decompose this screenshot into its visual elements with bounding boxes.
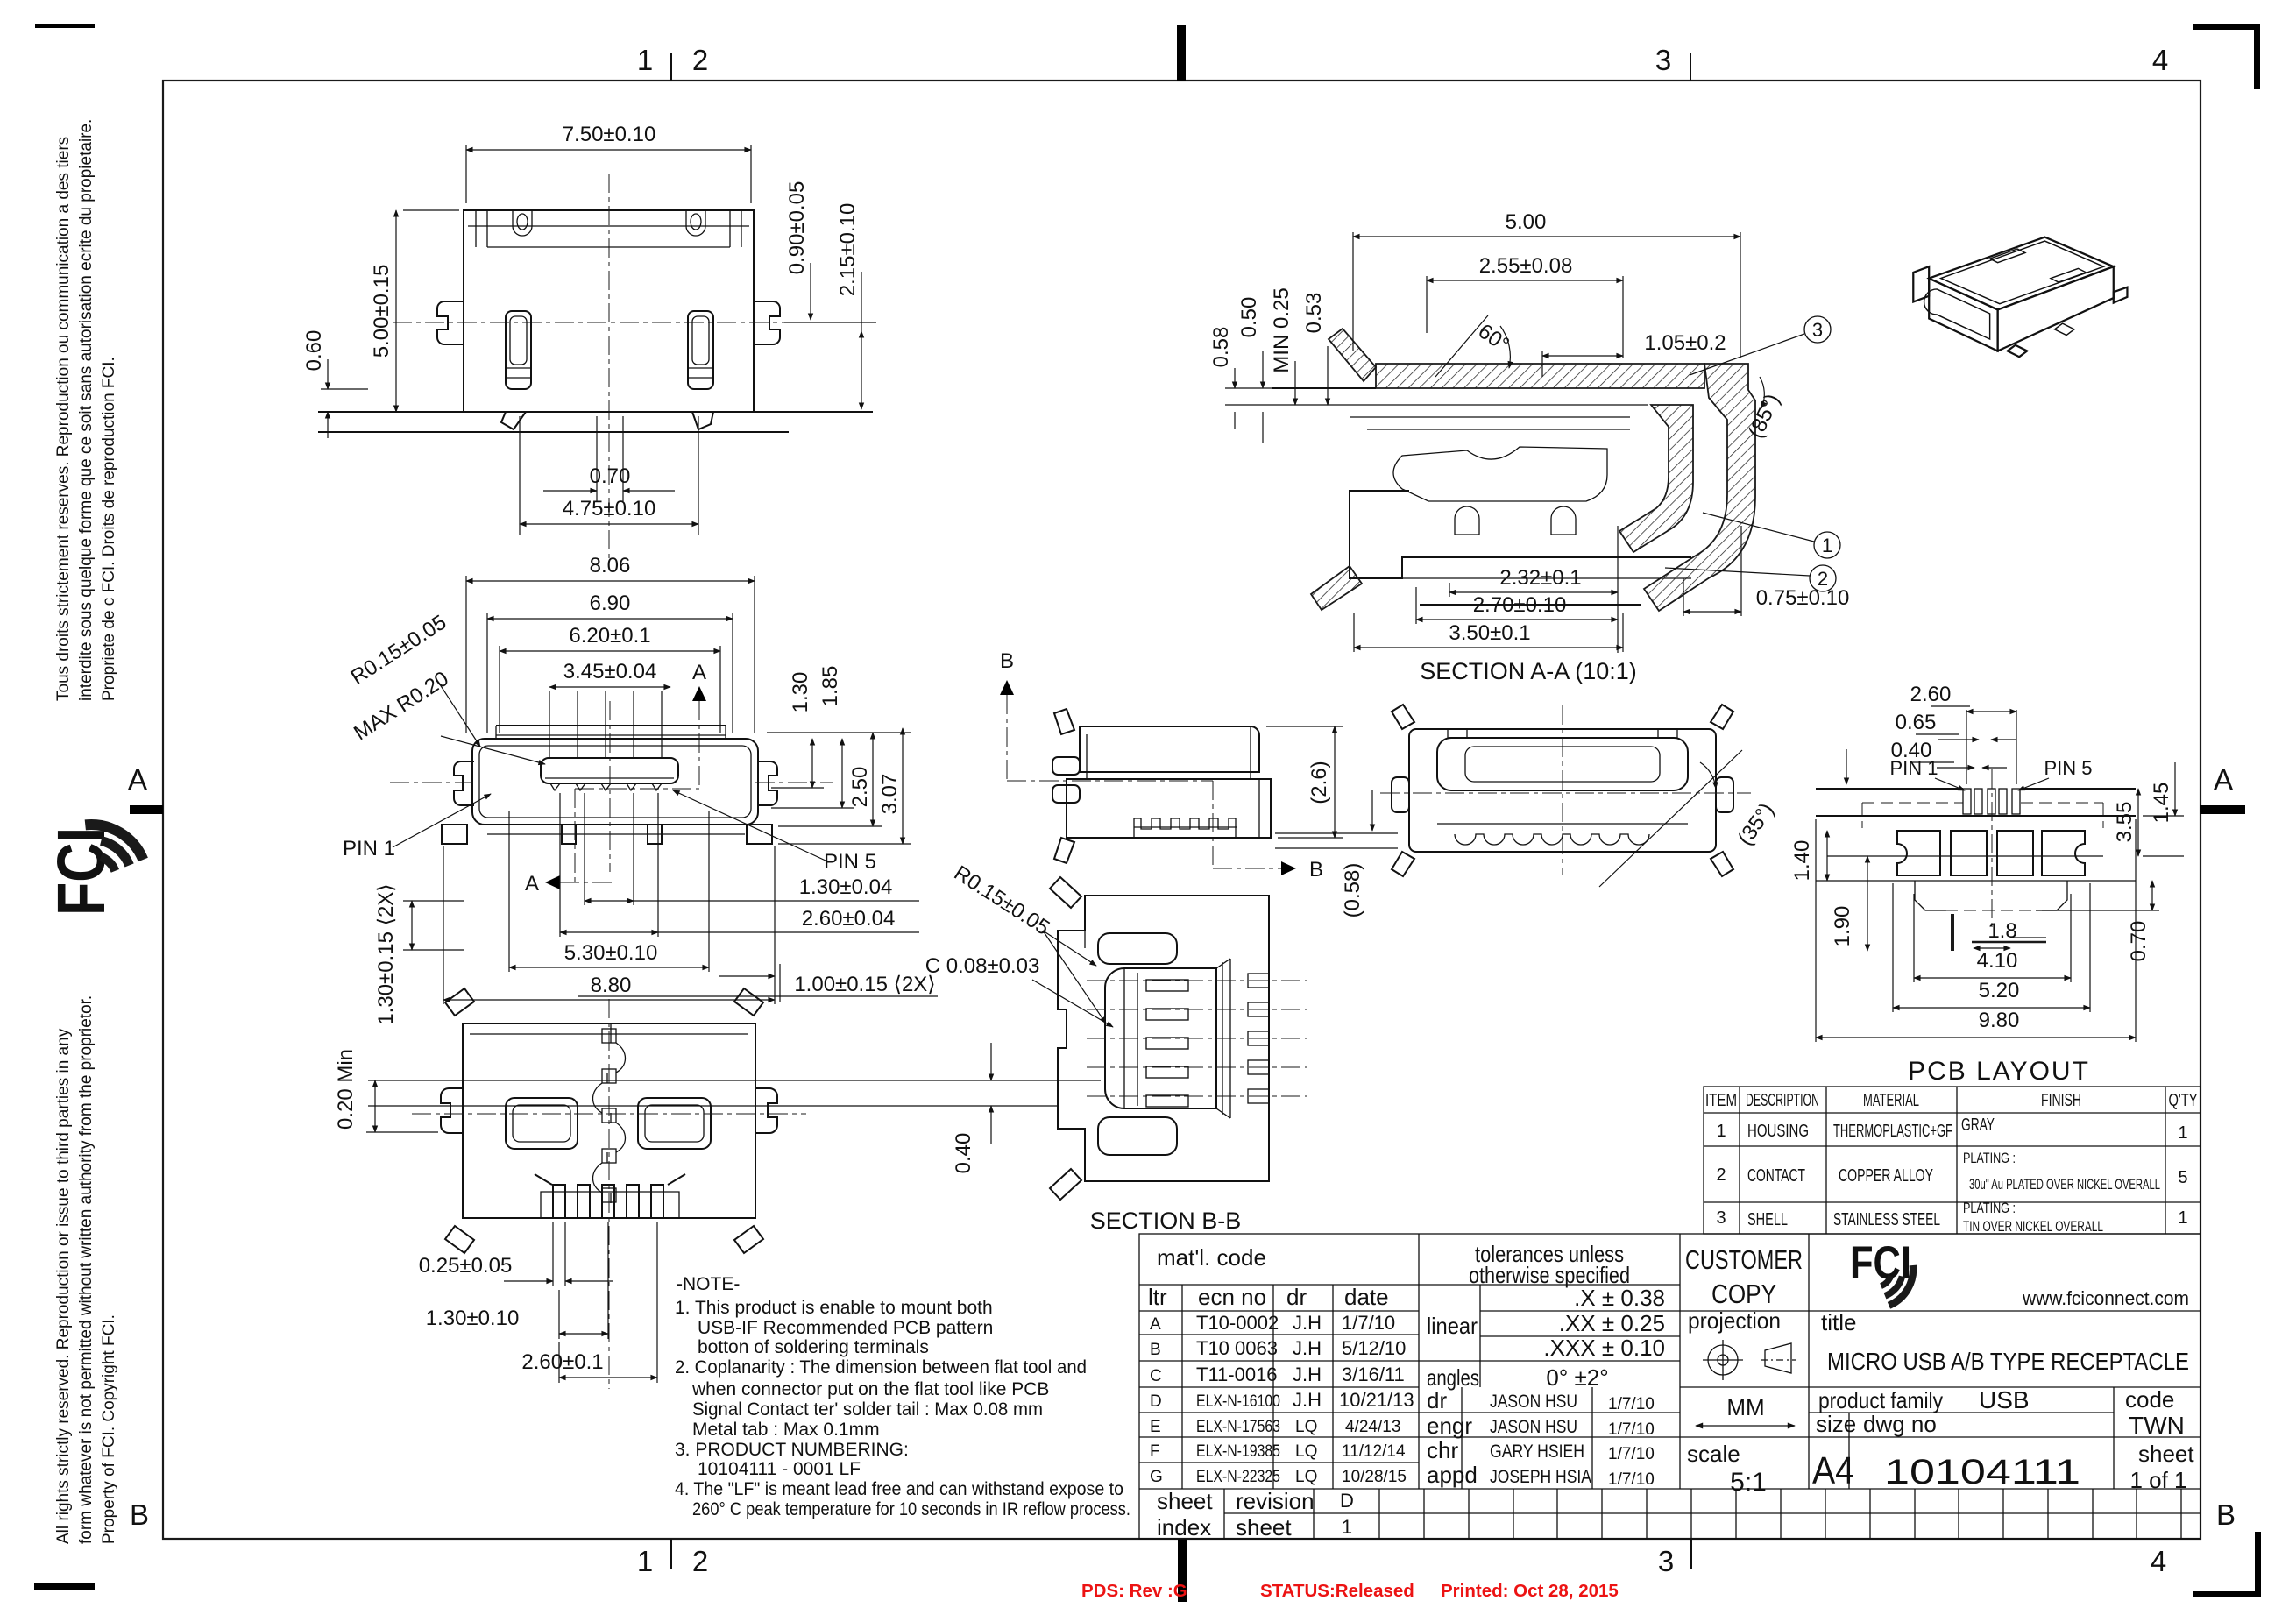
svg-text:3.55: 3.55 (2113, 802, 2137, 843)
svg-text:date: date (1344, 1284, 1389, 1310)
svg-text:sheet: sheet (1236, 1514, 1292, 1541)
svg-text:MM: MM (1726, 1394, 1764, 1420)
contact slot left (506, 311, 531, 389)
top latch slots (513, 210, 532, 236)
left ear (454, 761, 474, 805)
front face (1929, 279, 1997, 351)
svg-text:C 0.08±0.03: C 0.08±0.03 (925, 954, 1040, 978)
svg-text:Signal Contact ter' solder tai: Signal Contact ter' solder tail : Max 0.… (692, 1399, 1043, 1420)
registration mark bottom-left (34, 1583, 95, 1590)
svg-text:8.80: 8.80 (591, 974, 632, 997)
lower housing body (1350, 491, 1691, 578)
svg-text:5.00: 5.00 (1506, 210, 1547, 234)
mat'l code bottom (1139, 1284, 1680, 1286)
svg-text:projection: projection (1688, 1307, 1781, 1334)
svg-text:6.90: 6.90 (590, 591, 631, 615)
svg-text:Propriete de c FCI. Droits de: Propriete de c FCI. Droits de reproducti… (100, 357, 118, 701)
svg-text:4.10: 4.10 (1977, 949, 2018, 973)
svg-text:mat'l. code: mat'l. code (1157, 1244, 1266, 1271)
right face (1998, 266, 2114, 351)
svg-text:THERMOPLASTIC+GF: THERMOPLASTIC+GF (1833, 1122, 1952, 1141)
svg-text:1/7/10: 1/7/10 (1608, 1420, 1655, 1439)
svg-text:(2.6): (2.6) (1307, 761, 1331, 804)
35 deg line (1599, 750, 1742, 887)
5 signal pads (1963, 789, 1971, 814)
dim 0.75 (1683, 578, 1684, 616)
dim 1.05 (1541, 351, 1543, 377)
left lower tab (1311, 566, 1362, 610)
svg-text:5.00±0.15: 5.00±0.15 (370, 265, 393, 358)
svg-text:A: A (128, 763, 147, 796)
tongue / contact lines (1350, 416, 1630, 418)
svg-text:A: A (1150, 1315, 1161, 1334)
top face (1929, 237, 2114, 310)
bottom slot (1098, 1117, 1177, 1155)
svg-text:1/7/10: 1/7/10 (1608, 1395, 1655, 1413)
svg-text:GARY HSIEH: GARY HSIEH (1490, 1441, 1584, 1462)
svg-text:1/7/10: 1/7/10 (1608, 1470, 1655, 1489)
svg-text:TWN: TWN (2129, 1412, 2185, 1439)
svg-text:0.60: 0.60 (302, 330, 326, 372)
svg-text:B: B (1000, 649, 1014, 673)
corner feet (445, 988, 474, 1016)
svg-text:JOSEPH HSIA: JOSEPH HSIA (1490, 1467, 1591, 1487)
svg-text:0.40: 0.40 (952, 1133, 975, 1174)
svg-text:1/7/10: 1/7/10 (1608, 1445, 1655, 1463)
svg-text:3: 3 (1812, 319, 1823, 341)
bottom contact comb (1134, 818, 1236, 838)
centerlines (608, 999, 610, 1389)
top plan view (302, 123, 876, 568)
svg-text:0.50: 0.50 (1237, 297, 1261, 338)
svg-text:1: 1 (2178, 1208, 2187, 1228)
svg-text:2.60±0.04: 2.60±0.04 (802, 907, 896, 931)
registration mark left-center (130, 805, 163, 814)
tolerance rows (1480, 1310, 1680, 1312)
extension lines above (549, 691, 550, 758)
dim 5.00 (403, 209, 459, 211)
dim 2.55 (1426, 276, 1428, 333)
right ear (757, 761, 777, 805)
svg-text:2: 2 (692, 1545, 708, 1577)
dim 5.30 (508, 811, 510, 972)
svg-text:chr: chr (1427, 1437, 1458, 1463)
left ear (441, 1088, 463, 1133)
housing body (1067, 779, 1271, 838)
svg-text:.XX ± 0.25: .XX ± 0.25 (1559, 1310, 1665, 1336)
svg-text:10/28/15: 10/28/15 (1342, 1468, 1407, 1486)
4 big pads (1897, 831, 1940, 875)
svg-text:1.30: 1.30 (789, 672, 812, 713)
bottom foot line (1420, 604, 1641, 606)
plan view near section B (top view with 35deg) (1380, 705, 1779, 887)
svg-text:(0.58): (0.58) (1341, 863, 1364, 918)
dim arrow into top (1846, 749, 1847, 784)
svg-text:1.30±0.10: 1.30±0.10 (426, 1307, 520, 1330)
registration mark right-center (2200, 805, 2245, 814)
board edge lines (1816, 788, 1963, 790)
svg-text:www.fciconnect.com: www.fciconnect.com (2022, 1287, 2189, 1309)
svg-text:B: B (1309, 858, 1323, 882)
dr/engr/chr/appd (1419, 1412, 1680, 1413)
svg-text:0.70: 0.70 (2127, 921, 2151, 962)
svg-text:0.90±0.05: 0.90±0.05 (785, 181, 809, 275)
svg-text:SHELL: SHELL (1747, 1210, 1788, 1229)
svg-text:0.25±0.05: 0.25±0.05 (419, 1254, 513, 1278)
svg-text:5.30±0.10: 5.30±0.10 (564, 941, 658, 965)
svg-text:USB-IF Recommended PCB pattern: USB-IF Recommended PCB pattern (698, 1318, 993, 1338)
front view (343, 554, 938, 1025)
svg-text:10/21/13: 10/21/13 (1339, 1389, 1414, 1411)
contact block (1105, 968, 1216, 1108)
svg-text:FINISH: FINISH (2041, 1091, 2081, 1110)
title block (1139, 1234, 2200, 1541)
svg-text:form whatever is not permitted: form whatever is not permitted without w… (77, 995, 96, 1544)
svg-text:10104111: 10104111 (1884, 1453, 2080, 1491)
right pins (1248, 974, 1269, 1103)
svg-text:B: B (130, 1498, 149, 1531)
balloon 2 (1810, 565, 1836, 591)
dim 1.30 / 1.85 right (771, 787, 824, 789)
svg-text:5.20: 5.20 (1979, 979, 2020, 1002)
svg-text:dr: dr (1427, 1387, 1447, 1413)
svg-text:A: A (692, 661, 706, 684)
svg-text:index: index (1157, 1514, 1211, 1541)
dim 2.15 (861, 331, 862, 409)
MM arrow (1696, 1425, 1795, 1427)
svg-text:J.H: J.H (1293, 1363, 1322, 1385)
svg-text:title: title (1821, 1309, 1856, 1335)
projection symbols (1703, 1340, 1796, 1380)
svg-text:dwg no: dwg no (1863, 1411, 1937, 1437)
balloon 3 (1804, 316, 1831, 343)
dim 7.50 (465, 145, 467, 203)
balloon 1 (1814, 532, 1840, 558)
body outline (463, 1023, 755, 1218)
body outline (464, 210, 754, 412)
connector dashed outline (1862, 802, 1963, 804)
svg-text:4. The "LF" is meant lead free: 4. The "LF" is meant lead free and can w… (675, 1479, 1123, 1499)
svg-text:MIN 0.25: MIN 0.25 (1270, 287, 1293, 372)
svg-text:1.30±0.04: 1.30±0.04 (799, 875, 893, 899)
dim 1.30 +-0.10 (558, 1290, 560, 1339)
right wall (1222, 962, 1223, 1115)
FCI logo left margin (rotated) (44, 825, 143, 916)
lower flange (487, 833, 745, 835)
shell outline (472, 739, 758, 825)
thick mark (1951, 914, 1954, 951)
svg-text:260° C peak temperature for 10: 260° C peak temperature for 10 seconds i… (692, 1499, 1130, 1519)
svg-text:3.50±0.1: 3.50±0.1 (1449, 621, 1530, 645)
svg-text:Tous droits strictement reserv: Tous droits strictement reserves. Reprod… (54, 137, 73, 701)
revision table (1139, 1310, 1419, 1312)
svg-text:5/12/10: 5/12/10 (1342, 1337, 1406, 1359)
bottom strip (1139, 1488, 2200, 1490)
svg-text:1 of 1: 1 of 1 (2129, 1467, 2186, 1493)
feet (2114, 287, 2128, 303)
dim 4.75 (519, 416, 521, 535)
svg-text:2.60: 2.60 (1910, 683, 1952, 706)
svg-text:CONTACT: CONTACT (1747, 1166, 1805, 1186)
svg-text:engr: engr (1427, 1413, 1472, 1439)
svg-text:3.07: 3.07 (878, 774, 902, 815)
svg-text:dr: dr (1286, 1284, 1307, 1310)
tongue contacts bumps (550, 783, 662, 790)
svg-text:PLATING :: PLATING : (1963, 1150, 2016, 1166)
left bent tab (1329, 329, 1376, 381)
dim 8.80 (443, 846, 444, 1004)
svg-text:ecn no: ecn no (1198, 1284, 1266, 1310)
svg-text:4/24/13: 4/24/13 (1345, 1418, 1400, 1436)
svg-text:STAINLESS STEEL: STAINLESS STEEL (1833, 1210, 1940, 1229)
0.40 ext lines to section B-B (368, 1080, 1101, 1081)
svg-text:ELX-N-22325: ELX-N-22325 (1196, 1468, 1280, 1486)
left sidebar legal text (english, bottom) (54, 995, 118, 1544)
svg-text:2.50: 2.50 (848, 767, 872, 808)
svg-text:LQ: LQ (1295, 1442, 1317, 1461)
svg-text:PIN 1: PIN 1 (343, 837, 395, 861)
svg-text:J.H: J.H (1293, 1312, 1322, 1334)
svg-text:.XXX ± 0.10: .XXX ± 0.10 (1543, 1335, 1665, 1361)
svg-text:2: 2 (692, 44, 708, 76)
svg-text:Metal tab : Max 0.1mm: Metal tab : Max 0.1mm (692, 1420, 880, 1440)
svg-text:3: 3 (1658, 1545, 1674, 1577)
registration mark bottom-right L (2193, 1532, 2261, 1597)
registration mark top-center (1177, 25, 1186, 81)
svg-text:LQ: LQ (1295, 1468, 1317, 1486)
svg-text:interdite sous quelque forme q: interdite sous quelque forme que ce soit… (77, 119, 96, 701)
svg-text:T10-0002: T10-0002 (1196, 1312, 1279, 1334)
bottom solder tails (535, 1174, 552, 1185)
svg-text:revision: revision (1236, 1488, 1315, 1514)
center gasket squares (602, 1029, 616, 1043)
svg-text:SECTION A-A (10:1): SECTION A-A (10:1) (1420, 658, 1637, 684)
svg-text:3.45±0.04: 3.45±0.04 (563, 660, 657, 684)
svg-text:9.80: 9.80 (1979, 1009, 2020, 1032)
right area (1680, 1310, 2200, 1312)
svg-text:HOUSING: HOUSING (1747, 1122, 1809, 1141)
red footer (1081, 1581, 1619, 1601)
left mounting ear (437, 301, 464, 344)
dim 2.50 / 3.07 right (872, 733, 874, 826)
section B-B (925, 861, 1307, 1234)
dim 6.20 (499, 646, 500, 733)
meander trace (593, 1043, 626, 1193)
top shell plate (hatched) (1376, 364, 1704, 388)
svg-text:2.60±0.1: 2.60±0.1 (521, 1350, 603, 1374)
registration mark bottom-center (1178, 1539, 1187, 1602)
svg-text:1.05±0.2: 1.05±0.2 (1644, 331, 1726, 355)
svg-text:PCB LAYOUT: PCB LAYOUT (1908, 1057, 2090, 1086)
pcb line (1272, 387, 1376, 389)
svg-text:Printed: Oct 28, 2015: Printed: Oct 28, 2015 (1441, 1581, 1619, 1601)
svg-text:1: 1 (1716, 1122, 1726, 1141)
dim 6.90 (486, 613, 488, 733)
svg-text:STATUS:Released: STATUS:Released (1260, 1581, 1414, 1601)
svg-text:1: 1 (1342, 1516, 1352, 1538)
svg-text:2.15±0.10: 2.15±0.10 (836, 203, 860, 297)
svg-text:0° ±2°: 0° ±2° (1546, 1364, 1608, 1391)
svg-text:1/7/10: 1/7/10 (1342, 1312, 1395, 1334)
svg-text:-NOTE-: -NOTE- (677, 1274, 740, 1294)
svg-text:DESCRIPTION: DESCRIPTION (1746, 1091, 1819, 1110)
svg-text:4: 4 (2151, 1545, 2166, 1577)
svg-text:0.20 Min: 0.20 Min (334, 1049, 358, 1130)
contact fingers (1455, 506, 1479, 535)
svg-text:T10 0063: T10 0063 (1196, 1337, 1278, 1359)
svg-text:1. This product is enable to m: 1. This product is enable to mount both (675, 1298, 993, 1318)
left flange (1913, 266, 1929, 301)
svg-text:SECTION B-B: SECTION B-B (1090, 1208, 1242, 1234)
side view (1000, 649, 1398, 917)
solder tab outline below (1915, 881, 2067, 910)
svg-text:JASON HSU: JASON HSU (1490, 1392, 1577, 1412)
svg-text:8.06: 8.06 (590, 554, 631, 577)
svg-text:3: 3 (1655, 44, 1671, 76)
svg-text:C: C (1150, 1367, 1162, 1385)
ears (1392, 777, 1409, 812)
svg-text:COPPER ALLOY: COPPER ALLOY (1839, 1166, 1933, 1186)
svg-text:1.8: 1.8 (1988, 919, 2016, 943)
dim 2.70 (1415, 587, 1417, 624)
dim 2.32 (1449, 583, 1450, 597)
bottom scallop feet (1455, 834, 1649, 845)
svg-text:appd: appd (1427, 1462, 1478, 1488)
left tabs (1052, 757, 1080, 775)
dim 2.60 (558, 1342, 560, 1383)
svg-text:2.55±0.08: 2.55±0.08 (1479, 254, 1573, 278)
top slot (1098, 933, 1177, 964)
svg-text:ITEM: ITEM (1705, 1091, 1737, 1110)
line through pads (1827, 855, 2103, 857)
corner feet (1054, 709, 1074, 734)
svg-text:F: F (1150, 1442, 1160, 1461)
svg-text:0.75±0.10: 0.75±0.10 (1756, 586, 1850, 610)
main verticals (1418, 1234, 1420, 1489)
corner feet diagonals (1392, 705, 1414, 729)
svg-text:0.53: 0.53 (1302, 293, 1326, 334)
section A-A (1209, 210, 1849, 684)
right shell hook (hatched) (1644, 364, 1755, 611)
dim 1.30 +-0.04 (584, 793, 585, 905)
svg-text:PIN 5: PIN 5 (2044, 757, 2092, 779)
svg-text:MICRO USB A/B TYPE RECEPTA: MICRO USB A/B TYPE RECEPTACLE (1827, 1348, 2189, 1375)
svg-text:1.30±0.15 ⟨2X⟩: 1.30±0.15 ⟨2X⟩ (374, 883, 398, 1024)
dim 60 deg (1435, 315, 1488, 377)
svg-text:0.58: 0.58 (1209, 327, 1233, 368)
dim 0.90 (810, 263, 811, 320)
svg-text:5:1: 5:1 (1730, 1468, 1767, 1497)
contact slot right (688, 311, 713, 389)
bottom view (334, 988, 1101, 1389)
tongue (541, 758, 678, 783)
top face (1437, 738, 1688, 790)
svg-text:1: 1 (2178, 1123, 2187, 1143)
svg-text:Property of FCI. Copyright FC: Property of FCI. Copyright FCI. (100, 1314, 118, 1544)
top slots (1990, 249, 2087, 282)
svg-text:J.H: J.H (1293, 1389, 1322, 1411)
dim 3.50 (1353, 613, 1355, 652)
svg-text:J.H: J.H (1293, 1337, 1322, 1359)
svg-text:A: A (525, 872, 539, 896)
top plate (496, 725, 726, 726)
svg-text:5: 5 (2178, 1168, 2187, 1187)
centerlines (609, 701, 611, 872)
svg-text:3. PRODUCT NUMBERING:: 3. PRODUCT NUMBERING: (675, 1440, 909, 1460)
svg-text:JASON HSU: JASON HSU (1490, 1417, 1577, 1437)
svg-text:ELX-N-16100: ELX-N-16100 (1196, 1392, 1280, 1411)
dim 0.70 (596, 416, 598, 501)
svg-text:0.70: 0.70 (590, 464, 631, 488)
border frame (163, 81, 2200, 1539)
svg-text:4: 4 (2152, 44, 2168, 76)
svg-text:CUSTOMER: CUSTOMER (1685, 1244, 1803, 1275)
centerlines (1380, 792, 1751, 794)
left sidebar legal text (french, top) (54, 119, 118, 701)
svg-text:D: D (1150, 1392, 1162, 1411)
top inner lines (468, 225, 749, 227)
svg-text:B: B (2216, 1498, 2236, 1531)
FCI logo in titleblock (1850, 1237, 1913, 1306)
dim 3.45 (549, 686, 670, 688)
svg-text:product family: product family (1818, 1387, 1943, 1413)
contact windows (506, 1098, 578, 1149)
svg-text:1: 1 (637, 1545, 653, 1577)
corner feet (1050, 877, 1081, 908)
right ear (755, 1088, 777, 1133)
svg-text:when connector put on the flat: when connector put on the flat tool like… (691, 1379, 1049, 1399)
svg-text:sheet: sheet (2138, 1441, 2194, 1467)
svg-text:2.32±0.1: 2.32±0.1 (1499, 566, 1581, 590)
svg-text:1: 1 (637, 44, 653, 76)
svg-text:30u" Au PLATED OVER NICKEL OVE: 30u" Au PLATED OVER NICKEL OVERALL (1969, 1176, 2160, 1193)
centerline (1991, 769, 1993, 931)
svg-text:B: B (1150, 1341, 1161, 1359)
svg-text:Q'TY: Q'TY (2169, 1091, 2198, 1110)
svg-text:1.85: 1.85 (818, 666, 842, 707)
svg-text:All rights strictly reserved.: All rights strictly reserved. Reproducti… (54, 1028, 73, 1544)
pcb layout view (1790, 683, 2184, 1086)
svg-text:1.00±0.15 ⟨2X⟩: 1.00±0.15 ⟨2X⟩ (794, 973, 935, 996)
svg-text:A4: A4 (1812, 1449, 1854, 1492)
svg-text:1.90: 1.90 (1831, 906, 1854, 947)
svg-text:1.40: 1.40 (1790, 840, 1814, 882)
dim 1.00 (2X) (719, 975, 775, 977)
svg-text:T11-0016: T11-0016 (1196, 1363, 1278, 1385)
svg-text:4.75±0.10: 4.75±0.10 (563, 497, 656, 521)
svg-text:ltr: ltr (1148, 1284, 1167, 1310)
zone ticks (670, 53, 672, 81)
svg-text:code: code (2125, 1386, 2174, 1413)
svg-text:size: size (1816, 1411, 1856, 1437)
vertical centerline (608, 174, 610, 568)
inner housing wall (hatched) (1619, 405, 1693, 552)
svg-text:2.70±0.10: 2.70±0.10 (1473, 593, 1567, 617)
dim 8.06 (465, 576, 467, 733)
svg-text:PIN 1: PIN 1 (1889, 757, 1938, 779)
pin centerlines (1087, 980, 1307, 981)
shell top (1080, 726, 1259, 772)
outer body (1058, 896, 1269, 1181)
svg-text:A: A (2214, 763, 2233, 796)
registration mark top-right L (2193, 24, 2260, 89)
svg-text:11/12/14: 11/12/14 (1342, 1442, 1406, 1461)
svg-text:PLATING :: PLATING : (1963, 1200, 2016, 1216)
pcb base lines (318, 411, 873, 413)
svg-text:3: 3 (1716, 1208, 1726, 1228)
isometric view (1913, 237, 2127, 358)
base feet diagonals (501, 412, 526, 429)
